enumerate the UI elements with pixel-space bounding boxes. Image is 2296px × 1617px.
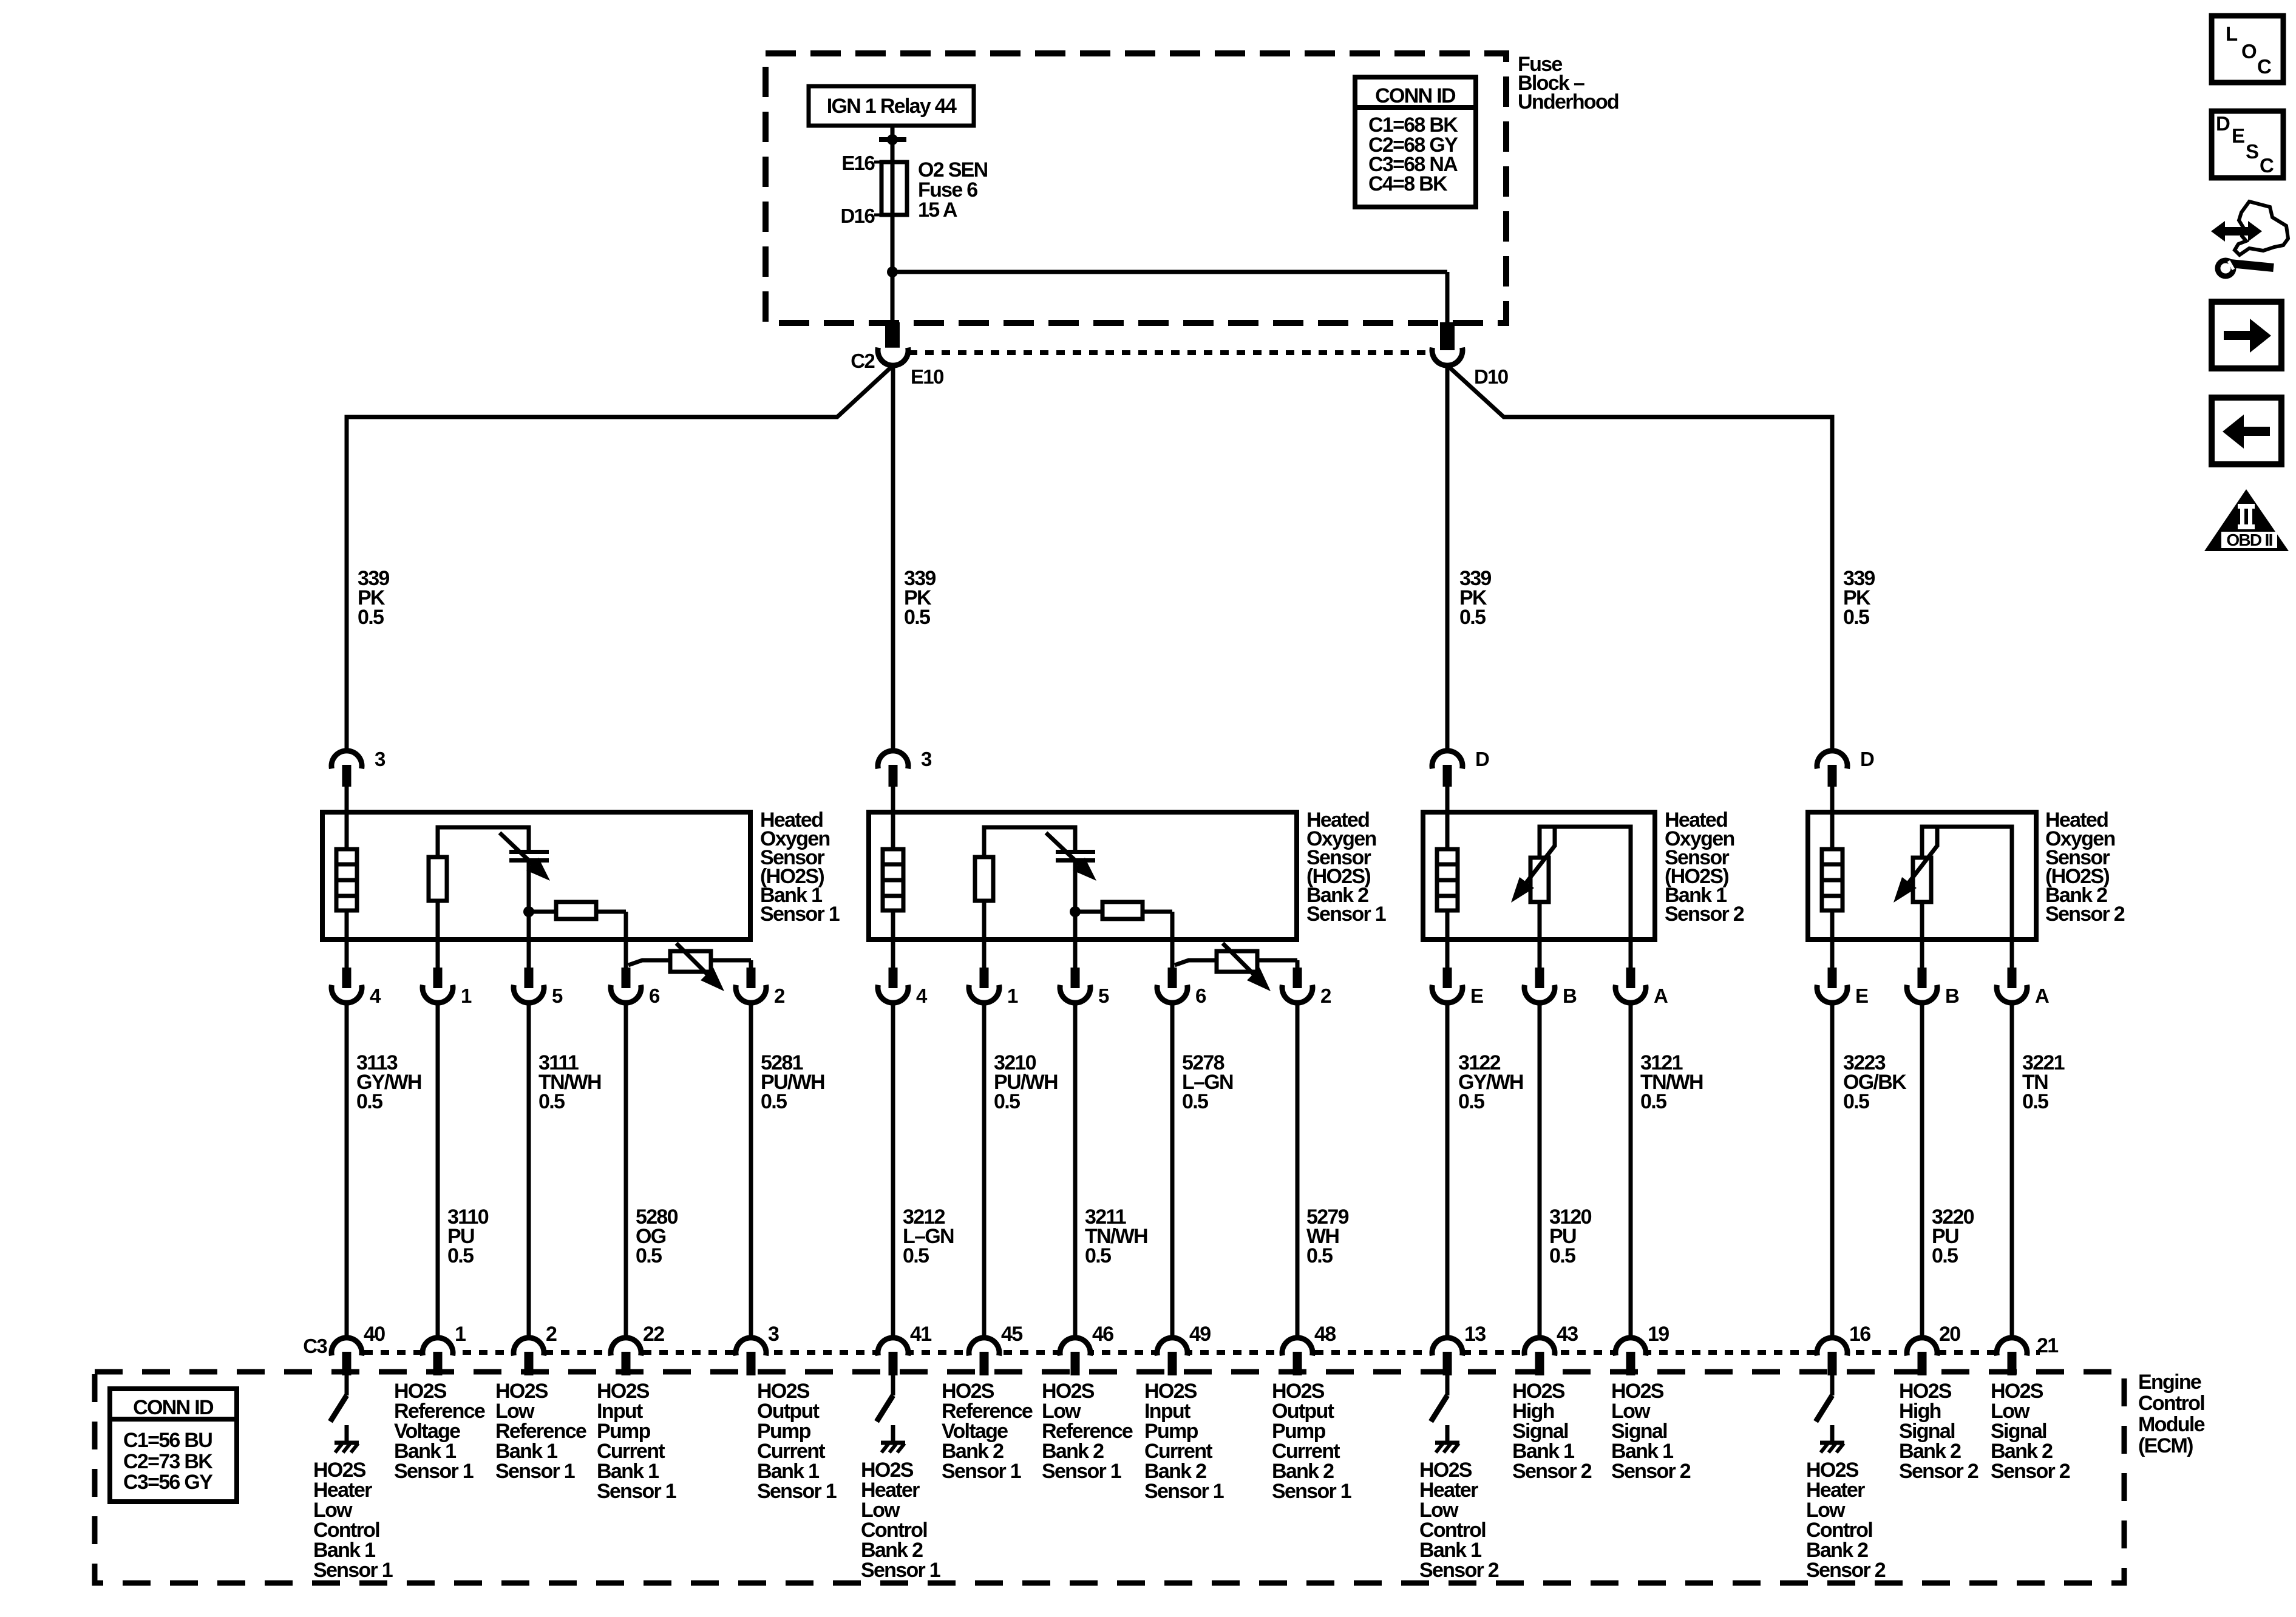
svg-text:1: 1 [1007, 985, 1018, 1007]
wire label 3113 [356, 1051, 421, 1113]
ECM dashed border [95, 1372, 2124, 1583]
wire label 3121 [1640, 1051, 1703, 1113]
ECM pin label HO2S Low Reference Bank 1 Sensor 1 [495, 1380, 586, 1483]
connector pin D sensor top [1817, 748, 1874, 812]
svg-text:16: 16 [1849, 1323, 1870, 1346]
svg-text:E: E [1855, 985, 1868, 1007]
svg-text:1: 1 [455, 1323, 466, 1346]
svg-text:0.5: 0.5 [1458, 1090, 1484, 1113]
wire fuse block feed to C2 [885, 272, 900, 350]
svg-text:E: E [1470, 985, 1483, 1007]
wire label 339 PK 0.5 [904, 567, 936, 629]
ECM pin label HO2S Heater Low Control Bank 1 Sensor 1 [313, 1459, 393, 1582]
wire D10 branch right [1447, 365, 1832, 751]
svg-text:CONN ID: CONN ID [1375, 84, 1456, 107]
heater element [883, 812, 903, 940]
svg-text:D: D [1475, 748, 1489, 770]
svg-text:0.5: 0.5 [1549, 1244, 1575, 1267]
wire label 5278 [1182, 1051, 1233, 1113]
connector pin 3 sensor top [331, 748, 385, 812]
wire C2 down to sensor B2S1 [891, 365, 895, 751]
svg-text:Sensor 1: Sensor 1 [757, 1480, 837, 1503]
wire label 3120 [1549, 1205, 1592, 1267]
ECM pin label HO2S Heater Low Control Bank 2 Sensor 1 [861, 1459, 940, 1582]
svg-text:Control: Control [2138, 1392, 2204, 1415]
ECM label [2138, 1371, 2205, 1457]
svg-text:22: 22 [643, 1323, 664, 1346]
CONN ID table fuse block [1355, 77, 1476, 207]
HO2S Bank 1 Sensor 2 box [1423, 812, 1655, 940]
svg-text:D: D [1860, 748, 1874, 770]
svg-text:Engine: Engine [2138, 1371, 2201, 1394]
svg-text:5: 5 [1098, 985, 1109, 1007]
svg-text:0.5: 0.5 [1932, 1244, 1958, 1267]
fuse value label [918, 158, 988, 222]
wire [1920, 1003, 1924, 1338]
wire label 3221 [2022, 1051, 2065, 1113]
ground (HO2S heater low control) [877, 1375, 905, 1453]
fuse block underhood dashed border [766, 53, 1506, 323]
wire cell to pin 5 [523, 863, 534, 940]
svg-text:Sensor 2: Sensor 2 [2045, 903, 2125, 926]
svg-text:49: 49 [1189, 1323, 1211, 1346]
connector pin 4 sensor bottom [331, 940, 381, 1007]
svg-text:E16: E16 [841, 152, 875, 174]
svg-text:0.5: 0.5 [636, 1244, 662, 1267]
wire [1538, 1003, 1542, 1338]
wire pump resistor to pin 6 [1170, 912, 1175, 968]
ECM pin label HO2S High Signal Bank 2 Sensor 2 [1899, 1380, 1978, 1483]
wire label 3122 [1458, 1051, 1523, 1113]
svg-text:2: 2 [1320, 985, 1331, 1007]
wire label 3211 [1085, 1205, 1147, 1267]
sensor cell resistor [429, 857, 447, 940]
svg-text:C2: C2 [851, 350, 875, 372]
ECM connector dotted line C3 [331, 1350, 2040, 1355]
svg-text:Sensor 1: Sensor 1 [760, 903, 840, 926]
wire [1296, 1003, 1300, 1338]
svg-text:CONN ID: CONN ID [133, 1396, 214, 1419]
svg-text:0.5: 0.5 [356, 1090, 382, 1113]
ECM pin label HO2S Reference Voltage Bank 1 Sensor 1 [394, 1380, 485, 1483]
svg-text:0.5: 0.5 [1182, 1090, 1208, 1113]
ECM connector pin 20 [1907, 1323, 1960, 1375]
svg-text:20: 20 [1939, 1323, 1960, 1346]
svg-text:OBD II: OBD II [2226, 531, 2272, 549]
svg-text:0.5: 0.5 [994, 1090, 1020, 1113]
connector pin 6 sensor bottom [1157, 968, 1206, 1007]
wire label 5281 [761, 1051, 824, 1113]
ECM connector pin 40 [331, 1323, 385, 1375]
pump cell resistor [1075, 902, 1172, 919]
connector pin 3 sensor top [878, 748, 932, 812]
heater element [1437, 812, 1458, 940]
svg-text:C3: C3 [303, 1335, 327, 1357]
svg-text:Sensor 2: Sensor 2 [1991, 1460, 2070, 1483]
svg-text:2: 2 [774, 985, 785, 1007]
svg-text:0.5: 0.5 [904, 606, 930, 629]
svg-text:A: A [2035, 985, 2049, 1007]
ECM connector pin 48 [1282, 1323, 1336, 1375]
sensor label Bank 1 Sensor 1 [760, 808, 840, 926]
dotted in-line connector line C2-D10 [909, 350, 1432, 355]
svg-text:C2=73 BK: C2=73 BK [123, 1450, 213, 1473]
connector C2 [851, 348, 908, 372]
wire label 339 PK 0.5 [1843, 567, 1875, 629]
connector pin D sensor top [1432, 748, 1489, 812]
ECM pin label HO2S Low Signal Bank 1 Sensor 2 [1611, 1380, 1691, 1483]
svg-text:15 A: 15 A [918, 198, 957, 222]
svg-text:Sensor 2: Sensor 2 [1419, 1559, 1499, 1582]
wire fuse block feed to D10 [892, 272, 1447, 335]
icon DESC [2212, 111, 2283, 178]
svg-text:0.5: 0.5 [447, 1244, 474, 1267]
svg-text:O: O [2241, 40, 2257, 63]
wire [749, 1003, 753, 1338]
svg-text:Sensor 2: Sensor 2 [1665, 903, 1744, 926]
svg-text:(ECM): (ECM) [2138, 1434, 2193, 1457]
wire resistor to pin A [1540, 827, 1631, 940]
signal variable resistor [1511, 827, 1555, 940]
svg-text:3: 3 [375, 748, 385, 770]
pump current variable resistor external [628, 943, 751, 991]
connector pin 2 sensor bottom [736, 968, 785, 1007]
svg-text:21: 21 [2037, 1334, 2058, 1357]
svg-text:5: 5 [552, 985, 563, 1007]
wire [1629, 1003, 1633, 1338]
connector pin E sensor bottom [1817, 940, 1868, 1007]
svg-text:0.5: 0.5 [1085, 1244, 1111, 1267]
svg-text:Underhood: Underhood [1518, 90, 1618, 114]
ECM connector pin 22 [611, 1323, 664, 1375]
pump cell resistor [529, 902, 626, 919]
svg-text:0.5: 0.5 [1843, 1090, 1869, 1113]
HO2S Bank 2 Sensor 2 box [1808, 812, 2036, 940]
signal variable resistor [1894, 827, 1938, 940]
svg-text:0.5: 0.5 [2022, 1090, 2048, 1113]
svg-text:0.5: 0.5 [761, 1090, 787, 1113]
svg-text:4: 4 [916, 985, 928, 1007]
sensor label Bank 2 Sensor 1 [1306, 808, 1386, 926]
svg-text:Sensor 1: Sensor 1 [1042, 1460, 1121, 1483]
junction in fuse block [887, 266, 898, 277]
svg-text:1: 1 [461, 985, 472, 1007]
wire relay to fuse [891, 126, 895, 272]
sensor label Bank 1 Sensor 2 [1665, 808, 1744, 926]
svg-text:D10: D10 [1474, 365, 1508, 388]
ECM connector pin 41 [878, 1323, 931, 1375]
svg-text:0.5: 0.5 [358, 606, 384, 629]
svg-text:45: 45 [1001, 1323, 1022, 1346]
wire [624, 1003, 628, 1338]
ECM pin label HO2S Input Pump Current Bank 2 Sensor 1 [1144, 1380, 1224, 1503]
wire label 3212 [903, 1205, 954, 1267]
ECM pin label HO2S Heater Low Control Bank 2 Sensor 2 [1806, 1459, 1886, 1582]
svg-text:2: 2 [546, 1323, 557, 1346]
svg-text:D16: D16 [841, 205, 875, 227]
ECM connector pin 19 [1615, 1323, 1669, 1375]
svg-text:B: B [1945, 985, 1959, 1007]
relay output terminal bar [879, 134, 906, 145]
ground (HO2S heater low control) [1816, 1375, 1844, 1453]
ECM pin label HO2S Output Pump Current Bank 2 Sensor 1 [1272, 1380, 1351, 1503]
wire [891, 1003, 895, 1338]
svg-text:48: 48 [1314, 1323, 1336, 1346]
svg-text:0.5: 0.5 [903, 1244, 929, 1267]
icon LOC [2212, 16, 2283, 83]
svg-text:Sensor 2: Sensor 2 [1899, 1460, 1978, 1483]
svg-text:D: D [2216, 112, 2230, 135]
svg-text:Sensor 2: Sensor 2 [1611, 1460, 1691, 1483]
heater element [1822, 812, 1843, 940]
wire [1170, 1003, 1175, 1338]
ECM connector pin 46 [1060, 1323, 1113, 1375]
svg-text:S: S [2246, 140, 2258, 163]
connector pin 1 sensor bottom [969, 940, 1018, 1007]
fuse block label [1518, 53, 1618, 114]
svg-text:19: 19 [1648, 1323, 1669, 1346]
icon back arrow [2212, 398, 2281, 464]
wire [982, 1003, 987, 1338]
svg-text:Sensor 2: Sensor 2 [1806, 1559, 1886, 1582]
fuse F6 O2 SEN Fuse 6 15 A [874, 162, 907, 215]
svg-text:Sensor 2: Sensor 2 [1512, 1460, 1592, 1483]
wire label 3223 [1843, 1051, 1907, 1113]
svg-text:Sensor 1: Sensor 1 [861, 1559, 940, 1582]
ground (HO2S heater low control) [1431, 1375, 1459, 1453]
connector pin 4 sensor bottom [878, 940, 928, 1007]
svg-text:Sensor 1: Sensor 1 [394, 1460, 474, 1483]
svg-text:C4=8 BK: C4=8 BK [1368, 172, 1448, 195]
ECM pin label HO2S Low Reference Bank 2 Sensor 1 [1042, 1380, 1133, 1483]
ECM connector pin 49 [1157, 1323, 1211, 1375]
heater element [336, 812, 357, 940]
svg-text:3: 3 [921, 748, 932, 770]
svg-text:C: C [2260, 154, 2274, 177]
wire [1445, 1003, 1450, 1338]
svg-text:L: L [2226, 22, 2238, 45]
connector pin 2 sensor bottom [1282, 968, 1331, 1007]
svg-text:Sensor 1: Sensor 1 [1272, 1480, 1351, 1503]
connector pin A sensor bottom [1615, 940, 1668, 1007]
connector pin B sensor bottom [1524, 940, 1577, 1007]
ECM connector pin 3 [736, 1323, 779, 1375]
svg-text:0.5: 0.5 [538, 1090, 565, 1113]
icon forward arrow [2212, 302, 2281, 368]
wire [1830, 1003, 1835, 1338]
svg-text:4: 4 [370, 985, 381, 1007]
wire [436, 1003, 440, 1338]
wire D10 down to sensor B1S2 [1445, 365, 1450, 751]
ground (HO2S heater low control) [330, 1375, 359, 1453]
node E10 label [911, 365, 943, 388]
icon OBD II [2204, 489, 2289, 551]
svg-text:C3=56 GY: C3=56 GY [123, 1471, 213, 1494]
svg-text:0.5: 0.5 [1306, 1244, 1333, 1267]
ECM connector pin 21 [1997, 1334, 2058, 1375]
connector pin 5 sensor bottom [1060, 940, 1109, 1007]
wire label 3210 [994, 1051, 1058, 1113]
svg-text:B: B [1563, 985, 1577, 1007]
svg-text:43: 43 [1557, 1323, 1578, 1346]
wire cell to pin 5 [1070, 863, 1081, 940]
svg-text:Sensor 1: Sensor 1 [1306, 903, 1386, 926]
svg-text:Sensor 1: Sensor 1 [597, 1480, 676, 1503]
fuse terminal label E16 [841, 152, 875, 174]
wire [2010, 1003, 2014, 1338]
HO2S Bank 2 Sensor 1 box [869, 812, 1297, 940]
svg-text:Sensor 1: Sensor 1 [1144, 1480, 1224, 1503]
wire label 5280 [636, 1205, 678, 1267]
CONN ID table ECM [110, 1389, 237, 1502]
wire [1073, 1003, 1078, 1338]
connector pin B sensor bottom [1907, 940, 1959, 1007]
wire label 339 PK 0.5 [358, 567, 389, 629]
svg-text:C1=56 BU: C1=56 BU [123, 1429, 212, 1452]
svg-text:E10: E10 [911, 365, 943, 388]
wire pump resistor to pin 6 [624, 912, 628, 968]
sense cell variable capacitor [1046, 833, 1096, 881]
fuse terminal label D16 [841, 205, 875, 227]
wire label 3220 [1932, 1205, 1974, 1267]
sensor cell resistor [975, 857, 993, 940]
svg-text:0.5: 0.5 [1640, 1090, 1666, 1113]
svg-text:Sensor 1: Sensor 1 [495, 1460, 575, 1483]
connector pin E sensor bottom [1432, 940, 1483, 1007]
sense cell variable capacitor [500, 833, 550, 881]
wire [527, 1003, 531, 1338]
ECM pin label HO2S Heater Low Control Bank 1 Sensor 2 [1419, 1459, 1499, 1582]
wire label 5279 [1306, 1205, 1349, 1267]
wire resistor top to sense cell [438, 827, 529, 857]
ECM pin label HO2S Input Pump Current Bank 1 Sensor 1 [597, 1380, 676, 1503]
svg-text:IGN 1 Relay 44: IGN 1 Relay 44 [827, 95, 957, 118]
connector pin 5 sensor bottom [514, 940, 563, 1007]
wire label 339 PK 0.5 [1459, 567, 1491, 629]
wire C2 branch left [347, 365, 893, 751]
svg-text:A: A [1654, 985, 1668, 1007]
ECM connector pin 43 [1524, 1323, 1578, 1375]
svg-text:13: 13 [1464, 1323, 1486, 1346]
sensor label Bank 2 Sensor 2 [2045, 808, 2125, 926]
svg-text:Sensor 1: Sensor 1 [942, 1460, 1021, 1483]
ECM pin label HO2S High Signal Bank 1 Sensor 2 [1512, 1380, 1592, 1483]
svg-text:40: 40 [364, 1323, 385, 1346]
icon hand with tool [2211, 202, 2288, 276]
ECM connector pin 2 [514, 1323, 557, 1375]
HO2S Bank 1 Sensor 1 box [322, 812, 750, 940]
ECM pin label HO2S Reference Voltage Bank 2 Sensor 1 [942, 1380, 1033, 1483]
ECM connector pin 13 [1432, 1323, 1486, 1375]
svg-text:0.5: 0.5 [1843, 606, 1869, 629]
connector pin 6 sensor bottom [611, 968, 660, 1007]
svg-text:Module: Module [2138, 1413, 2205, 1436]
wire resistor top to sense cell [984, 827, 1075, 857]
ECM pin label HO2S Low Signal Bank 2 Sensor 2 [1991, 1380, 2070, 1483]
ECM pin label HO2S Output Pump Current Bank 1 Sensor 1 [757, 1380, 837, 1503]
wire [345, 1003, 349, 1338]
svg-text:6: 6 [649, 985, 660, 1007]
ECM connector pin 1 [423, 1323, 466, 1375]
svg-text:Sensor 1: Sensor 1 [313, 1559, 393, 1582]
relay K44 IGN 1 Relay 44 [809, 86, 974, 126]
svg-text:46: 46 [1092, 1323, 1113, 1346]
wire resistor to pin A [1922, 827, 2012, 940]
svg-text:41: 41 [910, 1323, 931, 1346]
wire label 3111 [538, 1051, 601, 1113]
pump current variable resistor external [1175, 943, 1297, 991]
svg-text:6: 6 [1195, 985, 1206, 1007]
svg-text:C: C [2257, 55, 2271, 78]
connector pin A sensor bottom [1997, 940, 2049, 1007]
ECM connector pin 45 [969, 1323, 1022, 1375]
svg-text:3: 3 [768, 1323, 779, 1346]
wire label 3110 [447, 1205, 489, 1267]
svg-text:0.5: 0.5 [1459, 606, 1486, 629]
connector C3 label [303, 1335, 327, 1357]
connector D10 [1432, 322, 1508, 388]
connector pin 1 sensor bottom [423, 940, 472, 1007]
ECM connector pin 16 [1817, 1323, 1870, 1375]
svg-text:E: E [2232, 124, 2244, 147]
